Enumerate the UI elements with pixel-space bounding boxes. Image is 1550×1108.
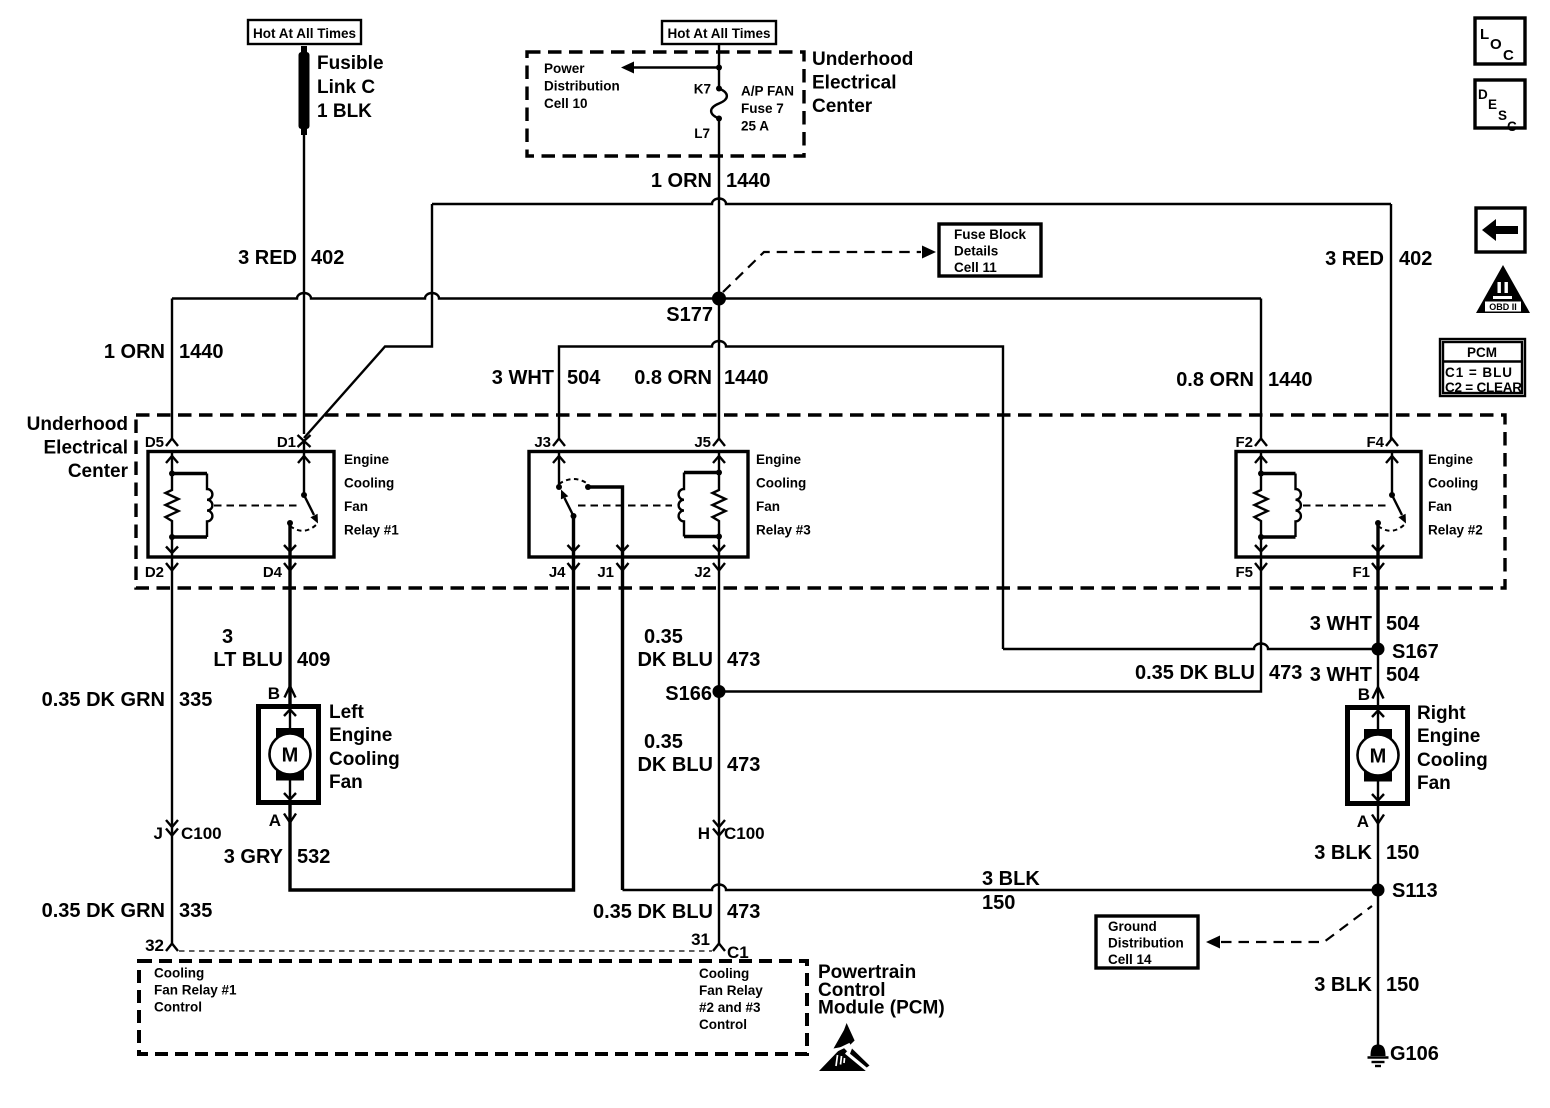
svg-text:Fan Relay: Fan Relay <box>699 983 763 998</box>
label 0.35 DK BLU 473 (lower) <box>593 901 760 923</box>
svg-text:0.35 DK BLU: 0.35 DK BLU <box>593 901 713 923</box>
connector C100 pin J <box>154 820 222 843</box>
svg-text:Fan: Fan <box>1428 499 1452 514</box>
svg-text:K7: K7 <box>694 82 711 97</box>
label Right Engine Cooling Fan <box>1417 703 1488 794</box>
relay3 switch fixed node <box>556 484 562 490</box>
svg-text:1440: 1440 <box>179 341 224 363</box>
wire 3 RED 402 diagonal into D1 <box>304 204 432 438</box>
svg-text:Engine: Engine <box>1428 452 1473 467</box>
relay2 switch blade <box>1392 495 1406 524</box>
relay1 coil <box>172 474 212 538</box>
svg-text:Distribution: Distribution <box>544 79 620 94</box>
svg-text:473: 473 <box>727 649 760 671</box>
svg-text:1440: 1440 <box>1268 369 1313 391</box>
svg-text:0.35 DK BLU: 0.35 DK BLU <box>1135 662 1255 684</box>
hot-at-all-times box left <box>248 20 361 44</box>
wire 3 WHT 504 from F1 to S167 <box>1376 557 1379 649</box>
wire 3 BLK 150 from S113 to G106 <box>1377 890 1379 1046</box>
pin F5 <box>1235 563 1267 581</box>
relay2 switch motion dashed arc <box>1378 525 1404 531</box>
svg-text:25 A: 25 A <box>741 119 769 134</box>
svg-text:J1: J1 <box>597 564 614 581</box>
wire 3 RED 402 right drop to F4 <box>1390 204 1392 440</box>
svg-text:Fusible: Fusible <box>317 53 384 74</box>
svg-text:A: A <box>269 811 281 830</box>
label 0.35 DK BLU 473 (right) <box>1135 662 1302 684</box>
relay1 output wire D4 with arrow <box>284 523 296 557</box>
label 3 BLK 150 (lower) <box>1314 974 1419 996</box>
svg-text:3 RED: 3 RED <box>238 247 297 269</box>
pin 32 PCM <box>145 936 178 955</box>
pin J1 <box>597 563 628 581</box>
pin F4 <box>1366 434 1398 451</box>
svg-text:335: 335 <box>179 689 212 711</box>
svg-text:1 ORN: 1 ORN <box>651 170 712 192</box>
PCM connector face C1 dashed line <box>179 950 712 952</box>
relay1 switch common node <box>301 492 307 498</box>
label 3 RED 402 (right) <box>1325 248 1432 270</box>
underhood electrical center main dashed box <box>136 415 1505 588</box>
relay2 mechanical link dashed <box>1303 505 1387 507</box>
svg-text:402: 402 <box>1399 248 1432 270</box>
svg-text:0.35 DK GRN: 0.35 DK GRN <box>42 900 165 922</box>
relay: engine cooling fan relay #2 box <box>1236 452 1421 558</box>
svg-text:Center: Center <box>812 96 873 117</box>
svg-text:3 RED: 3 RED <box>1325 248 1384 270</box>
label 0.35 DK GRN 335 (upper) <box>42 689 213 711</box>
svg-text:DK BLU: DK BLU <box>637 754 713 776</box>
relay3 switch contact node <box>585 484 591 490</box>
svg-text:A: A <box>1357 812 1369 831</box>
label 0.35 DK BLU 473 (upper) <box>637 626 760 671</box>
label 0.35 DK BLU 473 (middle) <box>637 731 760 776</box>
svg-text:150: 150 <box>982 892 1015 914</box>
pin D5 <box>145 434 178 451</box>
wire 0.35 DK GRN 335 from D2 to PCM pin 32 <box>171 557 173 944</box>
svg-text:Relay #1: Relay #1 <box>344 523 399 538</box>
relay2 output wire F1 with arrow <box>1372 523 1384 557</box>
svg-text:D4: D4 <box>263 564 283 581</box>
svg-text:Cell 11: Cell 11 <box>954 260 997 275</box>
svg-text:J2: J2 <box>694 564 711 581</box>
svg-text:Control: Control <box>699 1017 747 1032</box>
svg-text:0.35: 0.35 <box>644 731 683 753</box>
svg-text:504: 504 <box>567 367 601 389</box>
svg-text:Distribution: Distribution <box>1108 936 1184 951</box>
svg-text:0.35 DK GRN: 0.35 DK GRN <box>42 689 165 711</box>
relay3 coil feed wire with arrow <box>713 452 725 473</box>
relay2 coil <box>1261 474 1301 538</box>
pin J3 <box>534 434 565 451</box>
svg-text:D1: D1 <box>277 434 296 451</box>
wire 3 RED 402 top bus (hops over ORN wire) <box>432 199 1391 204</box>
relay2 coil ground wire with arrow <box>1255 537 1267 557</box>
label 3 WHT 504 <box>492 367 601 389</box>
svg-text:C1 = BLU: C1 = BLU <box>1445 365 1512 380</box>
label 3 RED 402 (left) <box>238 247 344 269</box>
label Engine Cooling Fan Relay #2 <box>1428 452 1483 538</box>
svg-text:Ground: Ground <box>1108 919 1157 934</box>
relay3 coil output wire with arrow <box>713 537 725 558</box>
pin D1 connector <box>277 434 311 451</box>
svg-text:S: S <box>1498 108 1507 123</box>
svg-text:3: 3 <box>222 626 233 648</box>
underhood electrical center dashed box (fuse block) <box>527 52 804 156</box>
label Underhood Electrical Center (left) <box>27 414 129 482</box>
svg-text:S167: S167 <box>1392 641 1439 663</box>
ground distribution cell 14 box <box>1096 916 1198 968</box>
label Left Engine Cooling Fan <box>329 702 400 793</box>
svg-text:150: 150 <box>1386 974 1419 996</box>
svg-text:C2 = CLEAR: C2 = CLEAR <box>1445 380 1522 395</box>
svg-text:1 ORN: 1 ORN <box>104 341 165 363</box>
svg-text:31: 31 <box>691 930 710 949</box>
svg-text:OBD II: OBD II <box>1489 302 1517 312</box>
svg-text:3 GRY: 3 GRY <box>224 846 284 868</box>
svg-text:C100: C100 <box>181 824 222 843</box>
fusible link C <box>299 46 310 135</box>
relay1 coil feed wire with arrow <box>166 452 178 474</box>
svg-text:Hot At All Times: Hot At All Times <box>667 26 770 41</box>
svg-text:3 BLK: 3 BLK <box>1314 974 1372 996</box>
wire 0.8 ORN 1440 right drop to F2 <box>1260 299 1262 441</box>
wire 0.8 ORN 1440 middle drop to J5 <box>718 299 720 441</box>
label 3 GRY 532 <box>224 846 331 868</box>
svg-text:3 WHT: 3 WHT <box>492 367 554 389</box>
svg-text:Cooling: Cooling <box>329 749 400 770</box>
label Underhood Electrical Center (top) <box>812 49 913 117</box>
svg-text:Electrical: Electrical <box>812 73 897 94</box>
svg-text:150: 150 <box>1386 842 1419 864</box>
relay3 common to J4 wire with arrow <box>568 516 580 557</box>
relay2 switch common node <box>1389 492 1395 498</box>
label 0.35 DK GRN 335 (lower) <box>42 900 213 922</box>
svg-text:Power: Power <box>544 61 585 76</box>
relay1 switch common wire <box>298 441 310 495</box>
svg-text:D: D <box>1478 87 1488 102</box>
pin L7 <box>694 116 722 142</box>
relay2 node coil bottom <box>1258 534 1264 540</box>
label Engine Cooling Fan Relay #3 <box>756 452 811 538</box>
svg-text:Engine: Engine <box>1417 726 1480 747</box>
wire 3 WHT 504 from S167 to right fan B <box>1377 649 1379 706</box>
label 0.8 ORN 1440 (right) <box>1176 369 1312 391</box>
svg-text:D2: D2 <box>145 564 164 581</box>
relay3 switch motion dashed arc <box>559 479 588 484</box>
OBD II icon <box>1476 265 1530 313</box>
svg-text:473: 473 <box>1269 662 1302 684</box>
wire 3 GRY 532 from left fan A to J4 <box>290 557 574 890</box>
relay3 switch common node <box>571 513 577 519</box>
svg-text:C100: C100 <box>724 824 765 843</box>
svg-text:LT BLU: LT BLU <box>213 649 283 671</box>
wire 0.35 DK BLU 473 from J2 to S166 and PCM pin 31 <box>718 557 720 944</box>
fuse block details cell 11 box <box>939 224 1041 276</box>
relay1 coil ground wire with arrow <box>166 537 178 557</box>
svg-text:Cooling: Cooling <box>756 476 806 491</box>
ESD sensitive symbol <box>819 1023 870 1072</box>
svg-text:S166: S166 <box>665 683 712 705</box>
svg-text:Details: Details <box>954 244 998 259</box>
svg-text:Control: Control <box>154 1000 202 1015</box>
wire 3 WHT 504 S167 bus (hops over F5 wire) <box>1003 644 1378 650</box>
svg-text:3 WHT: 3 WHT <box>1310 613 1372 635</box>
wire 1 ORN 1440 left drop to D5 <box>171 299 173 441</box>
pin K7 <box>694 82 722 97</box>
svg-text:E: E <box>1488 97 1497 112</box>
label 0.8 ORN 1440 (middle) <box>634 367 768 389</box>
svg-text:L: L <box>1480 26 1489 43</box>
node power distribution tap <box>716 65 722 71</box>
pin F2 <box>1235 434 1267 451</box>
svg-text:Fuse Block: Fuse Block <box>954 227 1027 242</box>
wire 1 ORN 1440 S177 bus (hops at x=304 and x=432) <box>172 293 1261 299</box>
wire 3 WHT 504 from J3 over to S167 drop <box>559 341 1003 649</box>
splice S166 <box>665 683 725 705</box>
svg-text:Cell 10: Cell 10 <box>544 96 588 111</box>
label Engine Cooling Fan Relay #1 <box>344 452 399 538</box>
svg-text:C: C <box>1503 47 1514 64</box>
svg-text:F5: F5 <box>1235 564 1253 581</box>
relay1 switch motion dashed arc <box>290 525 316 531</box>
right engine cooling fan motor <box>1348 708 1408 804</box>
label Cooling Fan Relay #2 and #3 Control <box>699 966 763 1032</box>
relay1 mechanical link dashed <box>214 505 299 507</box>
pin J4 <box>549 563 580 581</box>
svg-text:Fan Relay #1: Fan Relay #1 <box>154 983 237 998</box>
pin A left fan <box>269 811 296 830</box>
fuse A/P FAN Fuse 7 25A <box>711 89 727 119</box>
wire from hot feed into fuse block <box>718 44 720 89</box>
svg-text:Module (PCM): Module (PCM) <box>818 998 945 1019</box>
label Powertrain Control Module (PCM) <box>818 962 945 1019</box>
svg-text:Relay #2: Relay #2 <box>1428 523 1483 538</box>
relay3 switch feed wire with arrow <box>553 452 565 488</box>
svg-text:Fan: Fan <box>1417 773 1451 794</box>
pin B left fan <box>268 684 296 703</box>
label Power Distribution Cell 10 <box>544 61 620 111</box>
wire 1 ORN 1440 fuse output down to S177 <box>718 119 720 299</box>
splice S113 <box>1372 880 1438 902</box>
svg-text:A/P FAN: A/P FAN <box>741 84 794 99</box>
svg-text:Hot At All Times: Hot At All Times <box>253 26 356 41</box>
svg-text:D5: D5 <box>145 434 164 451</box>
svg-text:S177: S177 <box>666 304 713 326</box>
relay1 node coil bottom <box>169 534 175 540</box>
svg-text:M: M <box>282 745 299 767</box>
svg-text:F2: F2 <box>1235 434 1253 451</box>
relay3 node coil top <box>716 470 722 476</box>
svg-text:3 BLK: 3 BLK <box>1314 842 1372 864</box>
svg-text:Engine: Engine <box>756 452 801 467</box>
svg-text:Cooling: Cooling <box>699 966 749 981</box>
DESC icon <box>1475 80 1525 134</box>
back arrow icon <box>1476 208 1525 252</box>
pin J5 <box>694 434 725 451</box>
svg-text:C: C <box>1507 119 1517 134</box>
svg-text:S113: S113 <box>1392 880 1438 902</box>
svg-text:#2 and #3: #2 and #3 <box>699 1000 761 1015</box>
svg-text:402: 402 <box>311 247 344 269</box>
svg-text:32: 32 <box>145 936 164 955</box>
svg-text:J3: J3 <box>534 434 551 451</box>
ground G106 <box>1368 1043 1439 1066</box>
svg-text:Fan: Fan <box>329 772 363 793</box>
svg-text:1440: 1440 <box>726 170 771 192</box>
wire 3 BLK 150 from J1 to S113 (hops over DK BLU) <box>621 557 624 890</box>
label 3 BLK 150 (above S113) <box>1314 842 1419 864</box>
svg-text:Cooling: Cooling <box>344 476 394 491</box>
label 1 ORN 1440 (top) <box>651 170 771 192</box>
svg-text:335: 335 <box>179 900 212 922</box>
svg-text:F1: F1 <box>1352 564 1370 581</box>
label 3 LT BLU 409 <box>213 626 330 671</box>
svg-text:0.8 ORN: 0.8 ORN <box>634 367 712 389</box>
wire 3 RED 402 from fusible link to D1 <box>303 133 305 434</box>
relay3 node coil bottom <box>716 534 722 540</box>
svg-text:473: 473 <box>727 901 760 923</box>
wire 3 LT BLU 409 from D4 to left fan B <box>288 557 291 704</box>
powertrain control module dashed box <box>139 961 807 1054</box>
label Cooling Fan Relay #1 Control <box>154 966 237 1015</box>
svg-text:Underhood: Underhood <box>812 49 913 70</box>
relay2 switch contact node <box>1375 520 1381 526</box>
svg-text:B: B <box>1358 685 1370 704</box>
svg-text:J5: J5 <box>694 434 711 451</box>
svg-text:O: O <box>1490 36 1502 53</box>
svg-text:DK BLU: DK BLU <box>637 649 713 671</box>
svg-text:Cooling: Cooling <box>154 966 204 981</box>
svg-text:1440: 1440 <box>724 367 769 389</box>
pin 31 PCM <box>691 930 749 962</box>
relay1 switch contact node <box>287 520 293 526</box>
svg-text:J4: J4 <box>549 564 566 581</box>
svg-text:Underhood: Underhood <box>27 414 128 435</box>
svg-text:Cell 14: Cell 14 <box>1108 952 1152 967</box>
relay1 switch blade <box>304 495 318 524</box>
svg-text:504: 504 <box>1386 664 1420 686</box>
relay3 mechanical link dashed <box>578 505 672 507</box>
wire 0.35 DK BLU 473 from S166 to F5 <box>719 557 1261 692</box>
svg-text:Engine: Engine <box>329 725 392 746</box>
svg-text:1 BLK: 1 BLK <box>317 101 372 122</box>
label A/P FAN Fuse 7 25 A <box>741 84 794 134</box>
relay3 resistor <box>713 473 726 537</box>
relay1 resistor <box>166 474 179 538</box>
label 3 BLK 150 (horizontal run) <box>982 868 1040 914</box>
svg-text:504: 504 <box>1386 613 1420 635</box>
PCM connector legend box <box>1440 339 1525 396</box>
svg-text:3 WHT: 3 WHT <box>1310 664 1372 686</box>
svg-text:Fan: Fan <box>344 499 368 514</box>
pin D2 <box>145 563 178 581</box>
svg-text:Link C: Link C <box>317 77 375 98</box>
svg-text:Cooling: Cooling <box>1417 750 1488 771</box>
label 1 ORN 1440 (left) <box>104 341 224 363</box>
svg-text:409: 409 <box>297 649 330 671</box>
svg-text:Fan: Fan <box>756 499 780 514</box>
label 3 WHT 504 (below S167 bus) <box>1310 664 1420 686</box>
relay: engine cooling fan relay #1 box <box>148 452 334 558</box>
pin A right fan <box>1357 812 1384 831</box>
label Fusible Link C 1 BLK <box>317 53 384 122</box>
wire 3 BLK 150 from right fan A to S113 <box>1377 806 1379 890</box>
svg-text:PCM: PCM <box>1467 345 1497 360</box>
svg-text:Fuse 7: Fuse 7 <box>741 101 784 116</box>
relay3 coil <box>679 473 719 537</box>
svg-text:L7: L7 <box>694 126 710 141</box>
svg-text:Left: Left <box>329 702 365 723</box>
relay2 switch common wire with arrow <box>1386 452 1398 496</box>
relay: engine cooling fan relay #3 box <box>529 452 748 558</box>
label 3 WHT 504 (above S167) <box>1310 613 1420 635</box>
svg-text:G106: G106 <box>1390 1043 1439 1065</box>
svg-text:J: J <box>154 824 163 843</box>
svg-text:Right: Right <box>1417 703 1466 724</box>
svg-text:Relay #3: Relay #3 <box>756 523 811 538</box>
svg-text:Cooling: Cooling <box>1428 476 1478 491</box>
svg-text:0.35: 0.35 <box>644 626 683 648</box>
left engine cooling fan motor <box>259 707 319 803</box>
arrow to power distribution <box>621 62 719 74</box>
svg-text:Engine: Engine <box>344 452 389 467</box>
svg-text:532: 532 <box>297 846 330 868</box>
relay2 coil feed wire with arrow <box>1255 452 1267 474</box>
splice S177 <box>666 292 726 327</box>
pin J2 <box>694 563 725 581</box>
svg-text:M: M <box>1370 746 1387 768</box>
svg-text:Center: Center <box>68 461 129 482</box>
hot-at-all-times box middle <box>662 21 776 44</box>
connector C100 pin H <box>698 820 765 843</box>
LOC icon <box>1475 18 1525 64</box>
relay3 switch blade <box>561 490 574 517</box>
svg-text:3 BLK: 3 BLK <box>982 868 1040 890</box>
pin D4 <box>263 563 296 581</box>
svg-text:Electrical: Electrical <box>44 438 129 459</box>
pin B right fan <box>1358 685 1384 704</box>
svg-text:0.8 ORN: 0.8 ORN <box>1176 369 1254 391</box>
svg-text:H: H <box>698 824 710 843</box>
dashed pointer to fuse block details <box>723 246 936 293</box>
svg-text:F4: F4 <box>1366 434 1384 451</box>
splice S167 <box>1372 641 1439 663</box>
pin F1 <box>1352 563 1384 581</box>
dashed pointer to ground distribution <box>1206 906 1372 949</box>
relay2 node coil top <box>1258 471 1264 477</box>
relay1 node coil top <box>169 471 175 477</box>
svg-text:473: 473 <box>727 754 760 776</box>
relay3 contact to J1 wire with arrow <box>588 487 629 557</box>
svg-text:B: B <box>268 684 280 703</box>
relay2 resistor <box>1255 474 1268 538</box>
